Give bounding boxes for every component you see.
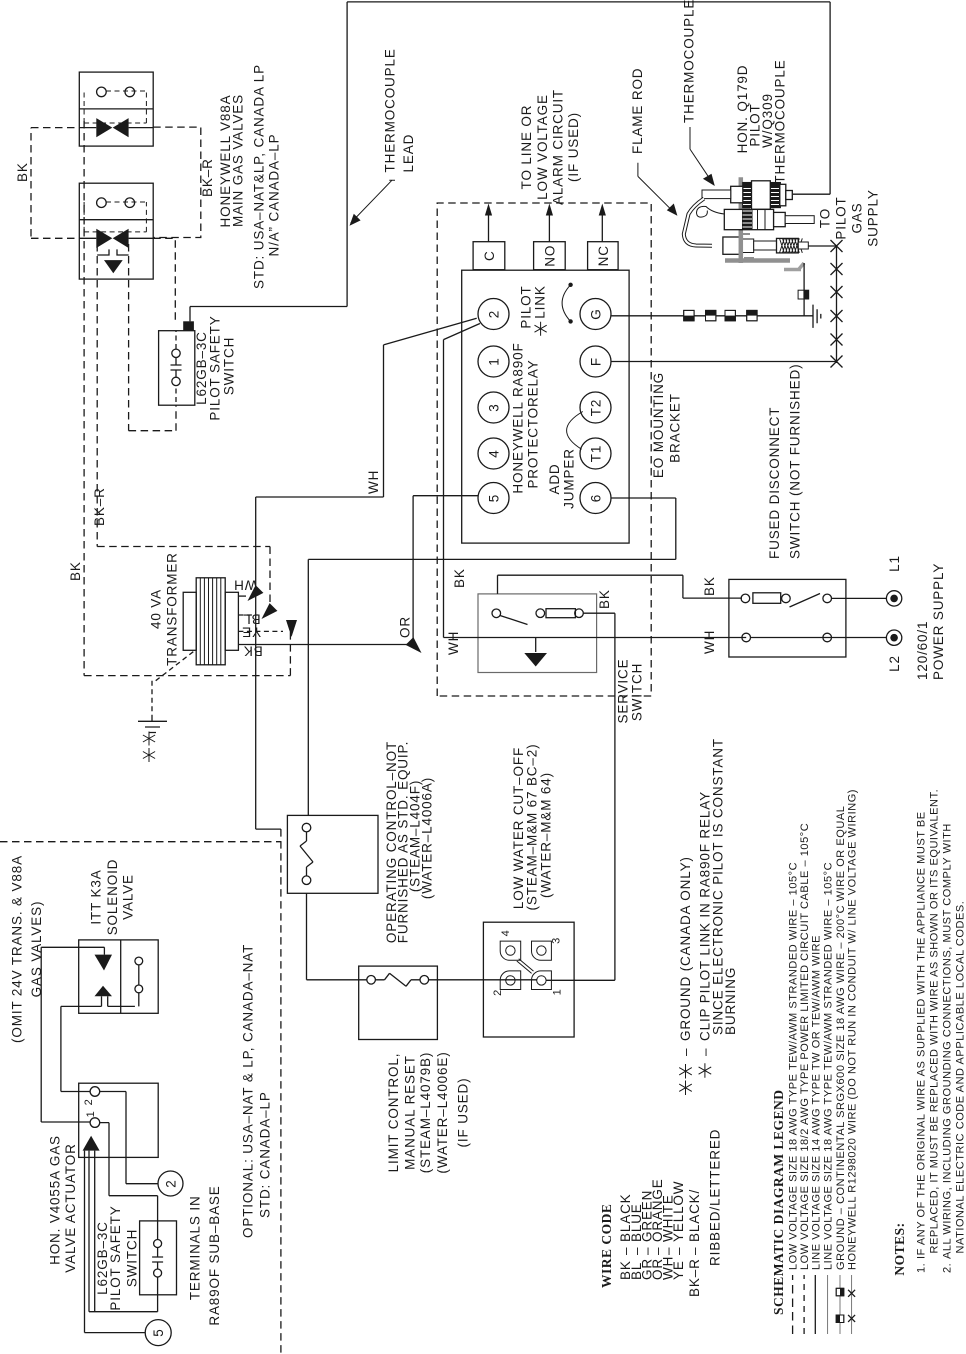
terminal G [580,299,611,330]
ground symbol at transformer [138,717,167,733]
legend sample low voltage 18/2 [803,1275,805,1334]
thermocouple nozzle [731,186,743,203]
service switch fuse [536,609,545,618]
svg-text:2: 2 [492,989,504,996]
svg-text:YE: YE [241,624,261,639]
legend sample line voltage 14 [814,1275,816,1334]
footnote double asterisk ground [679,1064,692,1095]
svg-text:C: C [482,250,497,261]
svg-text:5: 5 [487,494,502,502]
svg-text:SWITCH: SWITCH [630,663,645,721]
svg-text:SERVICE: SERVICE [616,659,631,724]
svg-text:OPTIONAL: USA–NAT & LP, CANADA: OPTIONAL: USA–NAT & LP, CANADA–NAT [241,944,256,1238]
svg-text:VALVE ACTUATOR: VALVE ACTUATOR [63,1143,78,1272]
svg-text:PILOT SAFETY: PILOT SAFETY [208,315,223,420]
terminal C box [473,242,505,270]
svg-text:VALVE: VALVE [121,874,136,920]
svg-text:GAS: GAS [850,202,865,233]
terminal 4 [478,438,509,469]
svg-text:GROUND (CANADA ONLY): GROUND (CANADA ONLY) [678,856,693,1041]
svg-text:(IF USED): (IF USED) [455,1078,470,1148]
svg-text:SWITCH: SWITCH [125,1229,140,1287]
wire BK out of service switch down to limit chain [583,613,615,980]
flame rod device [724,209,773,229]
flame rod cable hook [697,206,725,217]
svg-text:–: – [678,1048,693,1056]
svg-text:NATIONAL ELECTRIC CODE AND APP: NATIONAL ELECTRIC CODE AND APPLICABLE LO… [955,901,966,1254]
svg-text:SWITCH (NOT FURNISHED): SWITCH (NOT FURNISHED) [788,364,803,559]
pilot safety switch 2 box [140,1221,177,1295]
svg-text:FLAME ROD: FLAME ROD [630,68,645,154]
svg-text:PILOT: PILOT [519,285,534,328]
svg-text:TERMINALS IN: TERMINALS IN [188,1195,203,1300]
wire through V1 [79,127,153,129]
svg-text:TO LINE OR: TO LINE OR [519,105,534,190]
wire WH from terminal 2 to transformer junction [256,318,477,600]
terminal L1 [886,591,901,606]
wires from actuator arrow [85,1151,158,1333]
svg-text:SUPPLY: SUPPLY [866,189,881,246]
svg-text:BLACK/: BLACK/ [687,1189,702,1242]
svg-text:BK: BK [15,162,30,182]
valve V2 box (Honeywell V88A) [79,183,153,279]
pilot burner crosshatched inlet [777,238,799,253]
svg-text:THERMOCOUPLE: THERMOCOUPLE [773,59,788,183]
svg-text:RA89OF SUB–BASE: RA89OF SUB–BASE [207,1185,222,1325]
svg-text:ITT K3A: ITT K3A [89,869,104,924]
wire OR from terminal 5 [413,496,478,642]
wire drop to valve V2 [31,237,80,239]
svg-text:BK: BK [702,576,717,596]
svg-text:SOLENOID: SOLENOID [105,859,120,936]
pilot mounting bracket bar [739,177,744,263]
wire WH neutral down to L2 [444,637,887,639]
switch L62GB-3C pilot safety switch box [159,331,195,406]
curved tube from thermocouple to burner [684,199,712,246]
svg-text:6: 6 [589,494,604,502]
transformer lead WH [238,595,246,597]
valve V2 inner dashed coil path [84,202,146,232]
wire thermocouple lead (L62GB to pilot, around sheet top) [190,2,830,322]
svg-text:YE: YE [671,1260,686,1280]
svg-text:LINK: LINK [533,285,548,318]
fused disconnect switch box [729,579,846,657]
legend sample line voltage 18 [827,1275,829,1334]
wire through LWCO [506,979,615,982]
terminal 1 [478,346,509,377]
svg-text:ADD: ADD [547,463,562,494]
pilot burner device [723,237,742,254]
LWCO terminal 3 [532,941,552,960]
svg-text:POWER SUPPLY: POWER SUPPLY [931,563,946,680]
wire limit control to LWCO [429,979,506,981]
svg-text:(IF USED): (IF USED) [566,112,581,182]
svg-text:LOW VOLTAGE SIZE 18 AWG TYPE T: LOW VOLTAGE SIZE 18 AWG TYPE TEW/AWM STR… [788,862,800,1270]
svg-text:SWITCH: SWITCH [222,337,237,395]
svg-text:LOW VOLTAGE SIZE 18/2 AWG TYPE: LOW VOLTAGE SIZE 18/2 AWG TYPE POWER LIM… [799,823,811,1270]
svg-text:BK: BK [452,568,467,588]
svg-text:YELLOW: YELLOW [671,1181,686,1242]
svg-text:MAIN GAS VALVES: MAIN GAS VALVES [231,94,246,227]
wire drop to valve V1 [31,127,80,129]
wire through V2 [79,237,153,239]
svg-text:SCHEMATIC DIAGRAM LEGEND: SCHEMATIC DIAGRAM LEGEND [771,1089,786,1315]
svg-text:THERMOCOUPLE: THERMOCOUPLE [682,0,697,123]
wire dashed from V1 circuit down-left (to YE junction) [84,121,290,676]
svg-text:2: 2 [83,1099,95,1106]
wire BK bus (dashed, low voltage) [30,128,32,237]
gas valve actuator box (V4055A) [79,1083,159,1157]
svg-text:WH: WH [366,470,381,494]
svg-text:BK–R: BK–R [92,487,107,526]
solenoid coil circles [135,985,143,993]
svg-text:ALARM CIRCUIT: ALARM CIRCUIT [551,89,566,205]
valve V2 bowtie symbol [96,229,112,248]
svg-text:(STEAM–M&M 67 BC–2): (STEAM–M&M 67 BC–2) [525,744,540,911]
svg-text:WH: WH [446,631,461,655]
wire dashed from V2 down then left into L62GB (x1023-1116 y175) [153,238,175,321]
connector square on pilot ground wire [798,290,809,299]
valve V2 terminal circles [97,198,107,208]
footnote single asterisk pilot link [699,1063,712,1078]
wire G to ground (with ground-wire markers) [612,315,806,317]
svg-text:TO: TO [818,208,833,228]
wire arrow from NO [548,214,550,242]
svg-text:PROTECTORELAY: PROTECTORELAY [526,359,541,488]
wire WH neutral from terminal 2 to L2 run [444,324,480,638]
actuator terminal circles [90,1087,100,1097]
pilot link arc with dots [562,285,571,322]
svg-text:L1: L1 [887,555,902,572]
terminal ref circled 2 [158,1171,183,1196]
legend sample low voltage 18 [792,1275,794,1334]
LWCO terminal 2 [500,971,521,990]
solenoid bowtie [95,955,113,971]
svg-text:EO MOUNTING: EO MOUNTING [651,372,666,478]
dashed low-voltage enclosure [437,203,651,696]
limit control contacts [367,976,376,985]
svg-text:HONEYWELL R1298020 WIRE (DO NO: HONEYWELL R1298020 WIRE (DO NOT RUN IN C… [847,789,859,1270]
svg-text:T2: T2 [589,399,604,416]
svg-text:(OMIT 24V TRANS. & V88A: (OMIT 24V TRANS. & V88A [10,855,25,1043]
switch contact circles [172,349,180,357]
LWCO terminal 4 [500,941,521,960]
svg-text:4: 4 [487,449,502,457]
svg-text:(WATER–L4006A): (WATER–L4006A) [420,777,435,899]
svg-text:REPLACED, IT MUST BE REPLACED: REPLACED, IT MUST BE REPLACED WITH WIRE … [929,789,941,1254]
svg-text:(WATER–L4006E): (WATER–L4006E) [435,1051,450,1173]
svg-text:(WATER–M&M 64): (WATER–M&M 64) [539,772,554,898]
terminal NC box [588,242,619,270]
svg-text:–: – [698,1048,713,1056]
svg-text:2.: 2. [942,1263,954,1273]
transformer lead BL (dashed) [238,614,258,616]
LWCO link 4 to 1 [517,959,534,974]
svg-text:2: 2 [487,310,502,318]
svg-text:LINE VOLTAGE SIZE 14 AWG TYPE: LINE VOLTAGE SIZE 14 AWG TYPE TW OR TEW/… [810,935,822,1270]
svg-text:BURNING: BURNING [723,967,738,1035]
low water cut-off box [483,922,574,1037]
terminal L2 [886,630,901,645]
transformer T1 core (laminations) [196,578,225,665]
svg-text:LINE VOLTAGE SIZE 18 AWG TYPE: LINE VOLTAGE SIZE 18 AWG TYPE TEW/AWM ST… [823,862,835,1270]
valve V1 terminal circles [97,87,107,97]
svg-text:BK–R: BK–R [200,158,215,197]
limit control box [359,966,438,1039]
svg-text:T1: T1 [589,445,604,462]
junction arrow YE [286,620,297,637]
service arrow on neutral [535,638,537,653]
legend sample ground wire [839,1275,841,1334]
svg-text:OR: OR [398,616,413,638]
asterisks canada ground [143,732,155,763]
x marks on pilot wire [831,240,843,368]
actuator power arrow [83,1136,100,1151]
valve V1 bowtie symbol [96,118,112,137]
svg-text:HON. V4055A GAS: HON. V4055A GAS [48,1135,63,1265]
service switch contact circle [492,609,501,618]
dashed optional boundary [0,829,281,1354]
wire dashed from V2 circuit down-left (to BL junction) [97,244,270,603]
svg-text:1: 1 [85,1111,97,1118]
svg-text:–: – [671,1247,686,1255]
asterisk by pilot link [535,322,547,336]
svg-text:F: F [589,357,604,366]
junction arrow WH [248,585,264,601]
svg-text:L2: L2 [887,655,902,672]
svg-text:LIMIT CONTROL,: LIMIT CONTROL, [386,1053,401,1173]
disconnect neutral circles [742,633,751,642]
svg-text:STD: USA–NAT&LP, CANADA LP: STD: USA–NAT&LP, CANADA LP [252,64,267,289]
svg-text:RIBBED/LETTERED: RIBBED/LETTERED [708,1129,723,1266]
svg-text:IF ANY OF THE ORIGINAL WIRE AS: IF ANY OF THE ORIGINAL WIRE AS SUPPLIED … [916,811,928,1259]
svg-text:THERMOCOUPLE: THERMOCOUPLE [383,48,398,172]
svg-text:3: 3 [487,403,502,411]
svg-text:GAS VALVES): GAS VALVES) [29,901,44,998]
valve V2 second valve triangle [104,260,123,273]
valve V1 box (Honeywell V88A) [79,72,153,146]
wire pilot bracket to ground junction [803,263,805,316]
wire dashed from V2 bowtie to pilot safety switch [129,244,176,431]
valve V2 second valve seat symbol [97,249,128,255]
svg-text:TRANSFORMER: TRANSFORMER [165,552,180,666]
svg-text:GROUND – CONTINENTAL SRGX600 S: GROUND – CONTINENTAL SRGX600 SIZE 18 AWG… [835,806,847,1270]
wire F to pilot (R1298020 x-wire) [612,246,837,363]
svg-text:WH: WH [702,630,717,654]
svg-text:STD: CANADA–LP: STD: CANADA–LP [258,1091,273,1218]
junction arrow OR [406,637,422,653]
valve V1 inner dashed coil path [84,91,146,123]
service switch blade [500,616,528,625]
svg-text:ALL WIRING, INCLUDING GROUNDIN: ALL WIRING, INCLUDING GROUNDING CONNECTI… [942,823,954,1259]
jumper arc T1-T2 [567,412,583,450]
transformer T1 top winding box [183,592,196,650]
wire to L1 [832,597,887,599]
svg-text:HONEYWELL RA890F: HONEYWELL RA890F [511,342,526,493]
transformer lead YE (dashed) [238,630,283,632]
junction arrow BL [262,603,278,619]
wire operating control to limit control [307,893,367,980]
leader arrow to thermocouple lead wire [351,180,395,223]
solenoid wires [41,947,104,1122]
svg-text:1: 1 [487,357,502,365]
svg-text:FUSED DISCONNECT: FUSED DISCONNECT [767,407,782,559]
wire actuator terminal 2 to sub-base 2 [100,1092,158,1184]
wire from terminal 6 to operating control [308,498,676,815]
relay U1 box [462,270,629,543]
transformer lead BK [238,644,414,646]
operating control contacts [302,823,311,832]
svg-text:120/60/1: 120/60/1 [915,621,930,680]
terminal F [580,346,611,377]
svg-text:1: 1 [552,989,564,996]
svg-text:(STEAM–L4079B): (STEAM–L4079B) [418,1052,433,1173]
marker squares on ground wire [684,310,757,320]
terminal T2 [580,392,611,423]
LWCO terminal 1 [532,971,552,990]
wire optional feed from WH junction [256,600,281,829]
wire arrow from C [488,214,490,242]
svg-text:1.: 1. [916,1263,928,1273]
svg-text:NO: NO [543,245,558,267]
wire BK-R link between valves (dashed) [153,127,201,237]
svg-text:40 VA: 40 VA [149,589,164,629]
terminal 5 [478,483,509,514]
terminal NO box [534,242,566,270]
transformer core ground (dashed) [152,652,193,717]
svg-text:BL: BL [242,611,260,626]
wire BK into service switch [498,575,743,598]
svg-text:4: 4 [500,930,512,937]
terminal T1 [580,438,611,469]
svg-text:BK: BK [243,643,263,658]
legend sample R1298020 x-wire [851,1275,853,1334]
svg-text:MANUAL RESET: MANUAL RESET [402,1055,417,1170]
switch contacts dashed centerline [175,331,177,402]
svg-text:BK–R: BK–R [687,1258,702,1297]
svg-text:N/A” CANADA–LP: N/A” CANADA–LP [267,134,282,257]
svg-text:BRACKET: BRACKET [668,393,683,463]
terminal 2 [478,299,509,330]
svg-text:BK: BK [597,589,612,609]
svg-text:BK: BK [68,561,83,581]
thermocouple device (vertical cylinder) [743,183,781,208]
svg-text:LEAD: LEAD [401,134,416,173]
transformer T1 bottom winding box [225,592,238,650]
disconnect fuse + blade [741,594,750,603]
svg-text:–: – [687,1247,702,1255]
svg-text:G: G [589,308,604,319]
service switch box [478,594,597,673]
terminal 3 [478,392,509,423]
svg-text:WIRE CODE: WIRE CODE [599,1204,614,1288]
svg-text:PILOT SAFETY: PILOT SAFETY [108,1205,123,1310]
svg-text:3: 3 [551,937,563,944]
svg-text:LOW VOLTAGE: LOW VOLTAGE [535,94,550,200]
svg-text:5: 5 [151,1328,166,1336]
svg-text:JUMPER: JUMPER [562,448,577,509]
bracket over burner [739,236,744,255]
ground symbol at G wire [806,305,821,328]
operating control box [287,815,378,893]
terminal ref circled 5 [145,1320,171,1346]
svg-text:NC: NC [596,245,611,266]
solenoid valve box (ITT K3A) [79,940,159,1013]
svg-text:2: 2 [164,1179,179,1187]
wire actuator terminal 1 to safety switch [100,1123,158,1240]
svg-text:NOTES:: NOTES: [892,1222,907,1275]
switch black terminal square [183,321,194,330]
wire arrow from NC [601,214,603,242]
terminal 6 [580,483,611,514]
svg-text:PILOT: PILOT [834,196,849,239]
